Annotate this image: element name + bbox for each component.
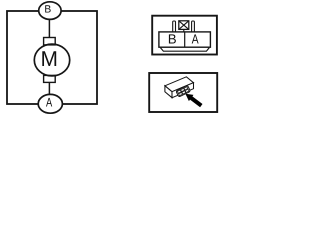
clip right <box>192 21 195 32</box>
housing top face <box>165 77 194 92</box>
pin B label <box>169 34 176 43</box>
connector body <box>159 32 211 47</box>
wire loop <box>7 11 97 104</box>
connector bottom lip <box>160 48 209 52</box>
arrow <box>185 94 202 108</box>
terminal B <box>39 2 61 20</box>
motor M1 <box>34 44 69 76</box>
terminal A <box>38 94 62 113</box>
lock (crossed box) <box>179 21 189 32</box>
wire motor-to-A <box>48 82 50 95</box>
housing front face <box>172 83 194 98</box>
clip left <box>173 21 176 32</box>
connector pinout box <box>152 16 217 55</box>
motor brush top <box>44 38 56 45</box>
pin A label <box>192 34 199 43</box>
housing left face <box>165 86 172 98</box>
motor brush bottom <box>44 75 56 82</box>
connector location box <box>149 73 217 112</box>
mating face <box>176 85 191 97</box>
wire B-to-motor <box>48 19 50 38</box>
cavity divider <box>184 32 186 47</box>
